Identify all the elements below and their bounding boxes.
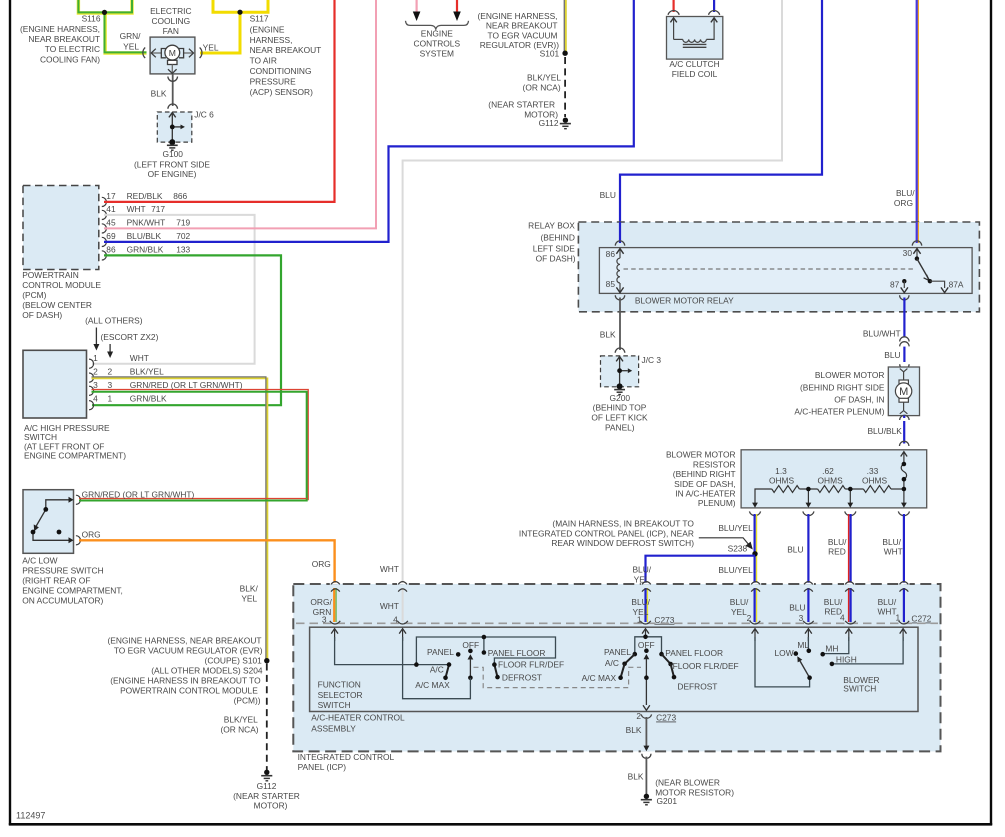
wire GRN/BLK 133 pin 86 (92, 255, 281, 405)
G201 callout (655, 777, 734, 797)
wire BLU to blower motor (903, 347, 905, 362)
label FUNCTION SELECTOR SWITCH (318, 680, 363, 711)
HP switch pin row 2 BLK/YEL wire (92, 378, 268, 660)
svg-text:GRN/RED (OR LT GRN/WHT): GRN/RED (OR LT GRN/WHT) (130, 380, 243, 390)
svg-text:HIGH: HIGH (836, 654, 857, 664)
relay switch pin 30 (916, 249, 918, 258)
svg-text:4: 4 (93, 394, 98, 404)
svg-text:INTEGRATED CONTROL: INTEGRATED CONTROL (298, 752, 395, 762)
ICP bottom boundary crossing gap (641, 750, 652, 752)
svg-text:LEFT SIDE: LEFT SIDE (533, 244, 576, 254)
connector arc above resistor box (900, 441, 909, 446)
svg-text:GRN/BLK: GRN/BLK (130, 394, 167, 404)
svg-text:A/C LOW: A/C LOW (22, 555, 57, 565)
svg-text:MOTOR): MOTOR) (254, 801, 288, 811)
label ENGINE CONTROLS SYSTEM (414, 28, 461, 58)
blower motor box (888, 367, 919, 416)
svg-text:OF DASH, IN: OF DASH, IN (834, 394, 884, 404)
label A/C CLUTCH FIELD COIL (669, 59, 719, 79)
svg-text:133: 133 (176, 244, 190, 254)
svg-text:(NEAR STARTER: (NEAR STARTER (488, 100, 555, 110)
wire BLU/WHT relay 87 down (903, 298, 905, 338)
svg-text:IN A/C-HEATER: IN A/C-HEATER (675, 489, 735, 499)
wire WHT inside ICP (402, 588, 404, 622)
blower switch blade (798, 658, 810, 678)
wire RED/BLK 866 pin 17 (104, 0, 335, 202)
PCM label (22, 270, 101, 320)
A/C high pressure switch box (23, 350, 87, 418)
relay actuation dashed line (624, 268, 914, 270)
svg-text:BLU: BLU (600, 190, 616, 200)
label INTEGRATED CONTROL PANEL (ICP) (298, 752, 395, 772)
A/C clutch field coil box (667, 17, 723, 60)
svg-text:BLU: BLU (789, 603, 805, 613)
A/C-heater control assembly box (310, 627, 918, 711)
wire BLU/ORG stub into relay box (917, 222, 919, 243)
svg-text:TO AIR: TO AIR (250, 56, 277, 66)
svg-text:OHMS: OHMS (769, 476, 795, 486)
resistor label (666, 450, 736, 509)
svg-text:BLOWER MOTOR: BLOWER MOTOR (666, 450, 736, 460)
blower motor resistor box (741, 450, 927, 508)
svg-text:G200: G200 (610, 393, 631, 403)
svg-text:BLK/YEL: BLK/YEL (224, 714, 258, 724)
svg-text:LOW: LOW (775, 648, 794, 658)
wire BLK relay 85 to J/C 3 (619, 298, 621, 351)
svg-text:TO ELECTRIC: TO ELECTRIC (45, 44, 100, 54)
svg-text:(BEHIND: (BEHIND (540, 232, 574, 242)
svg-text:S238: S238 (728, 543, 748, 553)
svg-text:PRESSURE SWITCH: PRESSURE SWITCH (22, 565, 103, 575)
selector1 A/C blade (446, 665, 450, 678)
svg-text:COOLING: COOLING (151, 16, 190, 26)
junction block J/C 3 (601, 356, 639, 387)
svg-text:ORG: ORG (894, 198, 913, 208)
svg-text:(ALL OTHERS): (ALL OTHERS) (85, 315, 143, 325)
svg-text:INTEGRATED CONTROL PANEL (ICP): INTEGRATED CONTROL PANEL (ICP), NEAR (519, 528, 694, 538)
svg-text:FUNCTION: FUNCTION (318, 680, 361, 690)
svg-text:.62: .62 (822, 466, 834, 476)
ICP bottom boundary connector pair (643, 746, 649, 752)
resistor internals (755, 452, 907, 504)
svg-text:BLU/BLK: BLU/BLK (867, 426, 902, 436)
connector arcs below resistor box (749, 511, 909, 515)
electric cooling fan motor symbol (151, 45, 193, 73)
svg-text:(ESCORT ZX2): (ESCORT ZX2) (101, 332, 159, 342)
svg-text:WHT: WHT (130, 353, 149, 363)
wire BLU/RED resistor out 3 (848, 514, 850, 583)
electric cooling fan box (150, 37, 195, 74)
svg-text:G112: G112 (539, 118, 559, 128)
blower motor internals (895, 369, 911, 414)
wire BLU/YEL resistor out 1 to S238 (756, 514, 758, 583)
svg-text:S101: S101 (540, 48, 560, 58)
S116 callout text (20, 24, 100, 65)
svg-text:(BELOW CENTER: (BELOW CENTER (22, 300, 92, 310)
ICP dashed box (293, 584, 940, 751)
svg-text:BLU/YEL: BLU/YEL (718, 565, 753, 575)
svg-text:(BEHIND RIGHT: (BEHIND RIGHT (673, 469, 736, 479)
svg-text:BLU/WHT: BLU/WHT (863, 329, 901, 339)
wire BLU/YEL pin2 inside ICP (756, 588, 758, 622)
connector line C273/C272 (296, 622, 938, 624)
svg-text:3: 3 (108, 380, 113, 390)
wire BLU stub into relay box (619, 222, 621, 243)
connector arc above pin 86 (615, 241, 624, 246)
wire BLK fan to J/C 6 (172, 74, 174, 106)
wire YEL left riser (213, 0, 240, 12)
svg-text:DEFROST: DEFROST (677, 681, 717, 691)
svg-text:NEAR BREAKOUT: NEAR BREAKOUT (28, 34, 100, 44)
blower switch pin2 feed (755, 637, 810, 687)
splice S238 (752, 551, 757, 556)
PCM box (23, 186, 99, 270)
ground G100 (169, 139, 175, 145)
svg-text:2: 2 (636, 711, 641, 721)
svg-text:BLK: BLK (151, 89, 167, 99)
relay coil pin 86/85 (617, 249, 620, 293)
connector arc below fan (168, 77, 178, 82)
svg-text:1: 1 (896, 613, 901, 623)
svg-text:OF DASH): OF DASH) (22, 310, 62, 320)
svg-text:BLU/: BLU/ (896, 188, 915, 198)
svg-text:ASSEMBLY: ASSEMBLY (311, 724, 356, 734)
wire BLK/YEL (OR NCA) dashed to G112 (564, 57, 566, 117)
selector2 A/C blades (625, 654, 635, 664)
label BLK/YEL mid (240, 584, 259, 604)
svg-text:J/C 6: J/C 6 (194, 110, 214, 120)
wire BLK/YEL dashed to G112 lower (266, 664, 268, 771)
svg-text:SIDE OF DASH,: SIDE OF DASH, (674, 479, 735, 489)
connector arc above motor (900, 364, 909, 369)
svg-text:FLOOR FLR/DEF: FLOOR FLR/DEF (673, 661, 739, 671)
wire BLU/WHT pin1 C272 inside ICP (903, 588, 905, 622)
svg-text:ENGINE COMPARTMENT): ENGINE COMPARTMENT) (24, 451, 126, 461)
svg-text:A/C: A/C (430, 664, 444, 674)
svg-text:(RIGHT REAR OF: (RIGHT REAR OF (22, 575, 90, 585)
svg-text:SELECTOR: SELECTOR (318, 690, 363, 700)
connector arc above coil left pin (668, 11, 679, 15)
svg-text:(NEAR BLOWER: (NEAR BLOWER (655, 777, 720, 787)
svg-text:G201: G201 (657, 796, 678, 806)
wire BLU/WHT resistor out 4 (903, 514, 905, 583)
label A/C-HEATER CONTROL ASSEMBLY (311, 713, 405, 734)
svg-text:BLU/YEL: BLU/YEL (718, 523, 753, 533)
svg-text:C272: C272 (911, 614, 931, 624)
svg-text:A/C MAX: A/C MAX (582, 673, 617, 683)
svg-text:BLU/: BLU/ (631, 597, 650, 607)
svg-text:G112: G112 (257, 781, 277, 791)
svg-text:WHT: WHT (380, 601, 399, 611)
ground G200 (617, 383, 623, 389)
svg-text:A/C CLUTCH: A/C CLUTCH (669, 59, 719, 69)
svg-text:OHMS: OHMS (818, 476, 844, 486)
wire GRN/YEL drop from S116 to fan (105, 12, 146, 53)
blower motor label (794, 370, 885, 416)
relay blade 30-87A (917, 259, 930, 282)
svg-text:2: 2 (108, 367, 113, 377)
ground G112 top (563, 118, 568, 123)
HP switch pin arcs (89, 359, 94, 410)
svg-text:ON ACCUMULATOR): ON ACCUMULATOR) (22, 595, 103, 605)
connector arc below pin 85 (615, 295, 624, 300)
A/C low pressure switch box (23, 490, 74, 554)
wire BLU to A/C clutch field coil (713, 0, 715, 12)
ICP boundary crossing gaps (330, 583, 341, 585)
coil internals (674, 18, 715, 47)
splice S101 (562, 51, 567, 56)
S101 callout (477, 11, 559, 59)
svg-text:ML: ML (797, 640, 809, 650)
svg-text:4: 4 (840, 613, 845, 623)
svg-text:3: 3 (93, 380, 98, 390)
wire ORG/GRN inside ICP (335, 588, 337, 622)
svg-text:WHT: WHT (878, 607, 897, 617)
wire BLU pin3 inside ICP (807, 588, 809, 622)
connector at fan left (143, 48, 145, 59)
svg-text:2: 2 (93, 367, 98, 377)
S117 callout text (250, 24, 322, 96)
wire BLU/ORG from top to relay pin 30 (917, 0, 919, 242)
svg-text:CONTROLS: CONTROLS (414, 39, 461, 49)
relay terminal 87 (902, 279, 906, 283)
wire GRN/YEL right riser from S116 (105, 0, 133, 13)
svg-text:RED/BLK: RED/BLK (127, 191, 163, 201)
svg-text:PANEL FLOOR: PANEL FLOOR (488, 648, 546, 658)
svg-text:DEFROST: DEFROST (502, 673, 542, 683)
svg-text:M: M (899, 386, 908, 398)
svg-text:(ENGINE HARNESS IN BREAKOUT TO: (ENGINE HARNESS IN BREAKOUT TO (110, 675, 261, 685)
svg-text:(BEHIND TOP: (BEHIND TOP (593, 403, 647, 413)
svg-text:GRN/BLK: GRN/BLK (127, 244, 164, 254)
wire BLU/BLK motor to resistor (903, 416, 905, 418)
mechanical link dashed (474, 667, 642, 687)
label BLU/ORG (894, 188, 915, 208)
HP switch label (24, 423, 126, 461)
page border right (990, 0, 992, 825)
svg-text:112497: 112497 (16, 811, 45, 821)
svg-text:BLU/: BLU/ (730, 597, 749, 607)
svg-text:SYSTEM: SYSTEM (420, 49, 454, 59)
svg-text:(PCM)): (PCM)) (234, 695, 261, 705)
svg-text:CONDITIONING: CONDITIONING (250, 66, 312, 76)
svg-text:BLU/: BLU/ (824, 597, 843, 607)
svg-text:WHT: WHT (127, 204, 146, 214)
wire BLU/BLK 702 pin 69 (104, 0, 634, 242)
relay box label (528, 220, 576, 263)
splice S116 (102, 10, 107, 15)
svg-text:SWITCH: SWITCH (318, 700, 351, 710)
connector arc above J/C 6 (168, 104, 178, 109)
svg-text:BLU/BLK: BLU/BLK (127, 231, 162, 241)
connector at fan right (200, 48, 202, 59)
svg-text:BLK: BLK (628, 771, 644, 781)
svg-text:PANEL: PANEL (604, 647, 631, 657)
S238 callout with arrow (519, 519, 694, 549)
svg-text:69: 69 (106, 231, 116, 241)
svg-text:ORG: ORG (82, 529, 101, 539)
svg-text:FAN: FAN (163, 26, 179, 36)
svg-text:POWERTRAIN CONTROL MODULE: POWERTRAIN CONTROL MODULE (120, 685, 258, 695)
wire YEL fan to S117 riser (200, 12, 240, 53)
svg-text:BLOWER MOTOR RELAY: BLOWER MOTOR RELAY (635, 295, 734, 305)
selector1 wiper feed from pin4 (403, 637, 471, 699)
svg-text:YEL: YEL (123, 41, 139, 51)
svg-text:BLU/: BLU/ (632, 564, 651, 574)
svg-text:CONTROL MODULE: CONTROL MODULE (22, 280, 101, 290)
wire BLU/YEL pin1 inside ICP (646, 588, 648, 622)
svg-text:A/C MAX: A/C MAX (415, 680, 450, 690)
svg-text:ENGINE COMPARTMENT,: ENGINE COMPARTMENT, (22, 585, 123, 595)
ground G112 lower (264, 770, 269, 775)
svg-text:BLU/: BLU/ (878, 597, 897, 607)
ground G201 (644, 794, 649, 799)
wire WHT long route from top to ICP pin4 (403, 0, 782, 583)
svg-text:M: M (169, 48, 176, 58)
LP switch pin arcs (76, 495, 81, 545)
svg-text:PLENUM): PLENUM) (698, 498, 736, 508)
svg-text:(BEHIND RIGHT SIDE: (BEHIND RIGHT SIDE (800, 382, 885, 392)
svg-text:A/C-HEATER CONTROL: A/C-HEATER CONTROL (311, 713, 405, 723)
label ELECTRIC COOLING FAN (150, 6, 191, 36)
svg-text:NEAR BREAKOUT: NEAR BREAKOUT (250, 45, 322, 55)
relay terminal 87A (930, 281, 945, 288)
svg-text:17: 17 (106, 191, 116, 201)
connector arc above pin 30 (912, 241, 921, 246)
svg-text:PNK/WHT: PNK/WHT (127, 217, 166, 227)
svg-text:A/C: A/C (605, 658, 619, 668)
svg-text:BLU: BLU (787, 545, 803, 555)
svg-text:(ENGINE HARNESS,: (ENGINE HARNESS, (20, 24, 100, 34)
svg-text:(ENGINE HARNESS,: (ENGINE HARNESS, (477, 11, 557, 21)
svg-text:BLK/YEL: BLK/YEL (527, 73, 561, 83)
svg-text:702: 702 (176, 231, 190, 241)
splice S117 (237, 10, 242, 15)
svg-text:BLK/YEL: BLK/YEL (130, 367, 164, 377)
svg-text:REAR WINDOW DEFROST SWITCH): REAR WINDOW DEFROST SWITCH) (551, 538, 694, 548)
svg-text:HARNESS,: HARNESS, (250, 35, 293, 45)
connector arc above J/C 3 (615, 348, 625, 353)
svg-text:(COUPE) S101: (COUPE) S101 (205, 655, 263, 665)
svg-text:OF LEFT KICK: OF LEFT KICK (591, 413, 648, 423)
wire BLU/YEL branch to ICP pin1 (646, 556, 756, 584)
function selector pin3 feed (335, 637, 449, 665)
connector arc below motor (900, 415, 909, 420)
LP switch internals (33, 500, 71, 541)
wire WHT 717 pin 41 (92, 215, 255, 364)
svg-text:BLK: BLK (626, 725, 642, 735)
svg-text:BLOWER MOTOR: BLOWER MOTOR (815, 370, 885, 380)
svg-text:717: 717 (151, 204, 165, 214)
svg-text:ENGINE: ENGINE (421, 28, 454, 38)
svg-text:PRESSURE: PRESSURE (250, 76, 296, 86)
wire PNK/WHT into engine controls (416, 0, 418, 13)
wire GRN/YEL left riser to S116 (78, 0, 105, 13)
svg-text:1: 1 (108, 394, 113, 404)
svg-text:S117: S117 (250, 14, 269, 24)
wire BLK inside ICP (645, 717, 647, 750)
svg-text:(MAIN HARNESS, IN BREAKOUT TO: (MAIN HARNESS, IN BREAKOUT TO (552, 519, 694, 529)
svg-text:S116: S116 (82, 13, 101, 23)
svg-text:BLU/: BLU/ (882, 537, 901, 547)
svg-text:RED: RED (828, 547, 846, 557)
wire YEL right riser (240, 0, 268, 12)
svg-text:OF DASH): OF DASH) (536, 254, 576, 264)
svg-text:BLK: BLK (600, 330, 616, 340)
selector2 feed rail (635, 637, 662, 654)
resistor value labels (769, 466, 888, 486)
svg-text:NEAR BREAKOUT: NEAR BREAKOUT (486, 21, 558, 31)
function selector rail (416, 637, 555, 665)
svg-text:(ENGINE: (ENGINE (250, 24, 285, 34)
svg-text:1.3: 1.3 (775, 466, 787, 476)
page border left (9, 0, 11, 825)
svg-text:ORG/: ORG/ (310, 597, 332, 607)
svg-text:BLU: BLU (884, 350, 900, 360)
svg-text:30: 30 (903, 248, 913, 258)
svg-text:1: 1 (93, 353, 98, 363)
brace engine controls system (406, 21, 469, 29)
wire RED/BLK into engine controls (456, 0, 458, 13)
connector arc below pin 87 (900, 295, 909, 300)
HP switch pin row 3 GRN/RED wire (92, 390, 309, 501)
svg-text:WHT: WHT (380, 564, 399, 574)
svg-text:RESISTOR: RESISTOR (693, 459, 736, 469)
svg-text:87: 87 (890, 279, 900, 289)
svg-text:86: 86 (106, 245, 116, 255)
connector arc above coil right pin (709, 11, 720, 15)
svg-text:MOTOR RESISTOR): MOTOR RESISTOR) (655, 787, 734, 797)
svg-text:TO EGR VACUUM REGULATOR (EVR): TO EGR VACUUM REGULATOR (EVR) (114, 645, 263, 655)
connector cup arcs on C273 line (330, 621, 910, 624)
wire PNK/WHT 719 pin 45 (104, 0, 376, 228)
svg-text:ORG: ORG (312, 559, 331, 569)
svg-text:87A: 87A (949, 279, 964, 289)
svg-text:(ACP) SENSOR): (ACP) SENSOR) (250, 87, 313, 97)
wire RED to A/C clutch field coil (672, 0, 674, 12)
svg-text:RELAY BOX: RELAY BOX (528, 220, 575, 230)
wire ORG from LP pin 2 (79, 540, 335, 583)
label BLOWER SWITCH (843, 675, 879, 693)
svg-text:(NEAR STARTER: (NEAR STARTER (233, 791, 300, 801)
label GRN/YEL (120, 31, 142, 51)
wire BLU resistor out 2 (807, 514, 809, 583)
svg-text:SWITCH: SWITCH (843, 683, 876, 693)
svg-text:WHT: WHT (884, 547, 903, 557)
svg-text:86: 86 (606, 249, 616, 259)
svg-text:(PCM): (PCM) (22, 290, 46, 300)
wire BLK to G201 (645, 757, 647, 794)
wire BLK/YEL top riser to S101 (565, 0, 567, 53)
svg-text:PANEL: PANEL (427, 647, 454, 657)
svg-text:PANEL FLOOR: PANEL FLOOR (665, 648, 723, 658)
S204 callout (107, 635, 262, 734)
svg-text:PANEL): PANEL) (605, 422, 635, 432)
wire BLU/RED pin4 inside ICP (848, 588, 850, 622)
svg-text:OFF: OFF (462, 640, 479, 650)
svg-text:45: 45 (106, 218, 116, 228)
svg-text:866: 866 (173, 191, 187, 201)
svg-text:GRN/: GRN/ (120, 31, 142, 41)
svg-text:FLOOR FLR/DEF: FLOOR FLR/DEF (498, 659, 564, 669)
page border bottom (9, 823, 992, 826)
svg-text:J/C 3: J/C 3 (642, 355, 662, 365)
svg-text:BLU/: BLU/ (828, 537, 847, 547)
entry arrows into assembly (335, 630, 904, 641)
svg-text:OF ENGINE): OF ENGINE) (148, 169, 197, 179)
svg-text:TO EGR VACUUM: TO EGR VACUUM (488, 30, 558, 40)
svg-text:(ENGINE HARNESS, NEAR BREAKOUT: (ENGINE HARNESS, NEAR BREAKOUT (107, 635, 261, 645)
